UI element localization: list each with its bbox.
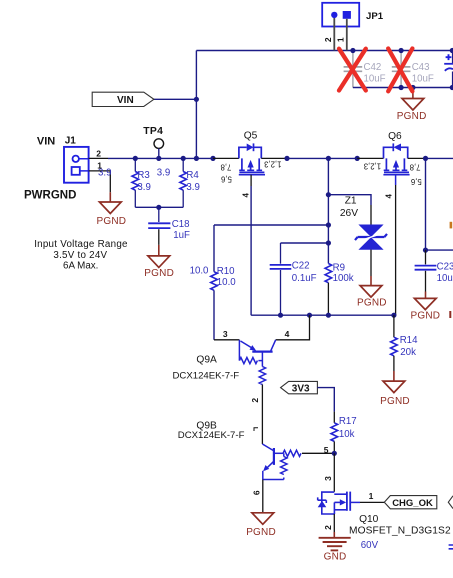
- pin number 1 Q10: [369, 491, 374, 501]
- wire R3 R4 bottom rail: [135, 206, 183, 208]
- node C22 branch: [326, 240, 331, 245]
- svg-text:Q6: Q6: [388, 131, 402, 142]
- svg-text:10k: 10k: [339, 429, 355, 440]
- svg-text:PGND: PGND: [144, 268, 174, 279]
- wire JP1 pin2: [333, 18, 335, 51]
- svg-text:CHG_OK: CHG_OK: [392, 498, 433, 509]
- wire bottom bus of caps: [353, 87, 453, 89]
- svg-text:3.9: 3.9: [157, 168, 170, 179]
- value 10.0 stray (R10): [190, 266, 209, 277]
- svg-text:3.9: 3.9: [137, 182, 150, 193]
- resistor R17: [331, 412, 357, 454]
- svg-text:PGND: PGND: [246, 527, 276, 538]
- svg-text:R3: R3: [137, 170, 149, 181]
- pin number 3 Q9A: [223, 329, 228, 339]
- resistor R3: [132, 158, 151, 207]
- wire bus to Q6 left: [357, 157, 383, 159]
- node R10 branch: [326, 222, 331, 227]
- svg-text:J1: J1: [65, 135, 77, 146]
- ground PGND C23: [411, 292, 441, 322]
- svg-text:26V: 26V: [340, 208, 358, 219]
- wire J1 pin2 to bus: [89, 157, 108, 159]
- svg-text:6: 6: [252, 490, 262, 495]
- wire top bus: [196, 50, 453, 52]
- ground PGND top caps: [397, 88, 427, 123]
- svg-text:GND: GND: [324, 552, 347, 563]
- node right cap top: [450, 48, 453, 53]
- text clipped PGND right edge: [449, 311, 451, 318]
- transistor Q5 (P-MOSFET with body diode): [239, 131, 265, 175]
- svg-text:3.9: 3.9: [98, 168, 111, 179]
- capacitor C23: [415, 158, 453, 291]
- svg-text:Q9A: Q9A: [196, 354, 217, 365]
- pin label 7,8 Q6: [410, 163, 421, 172]
- node 5 junction: [332, 451, 337, 456]
- svg-text:3.5V to 24V: 3.5V to 24V: [53, 250, 107, 261]
- svg-text:1: 1: [335, 37, 345, 42]
- node Q5 left pin: [210, 156, 215, 161]
- pin label 5,6 Q5: [221, 175, 232, 184]
- svg-text:Q5: Q5: [244, 131, 258, 142]
- pin label 5,6 Q6: [411, 177, 422, 186]
- wire R10 top vertical: [213, 225, 215, 272]
- node R14 top: [391, 313, 396, 318]
- svg-text:PWRGND: PWRGND: [24, 190, 76, 202]
- svg-text:3: 3: [323, 476, 333, 481]
- svg-text:C18: C18: [172, 219, 190, 230]
- wire Q9A to Q9B: [261, 385, 263, 445]
- transistor Q6 (P-MOSFET with body diode): [383, 131, 409, 175]
- ground PGND J1: [97, 192, 127, 227]
- resistor R10: [211, 266, 237, 290]
- capacitor right edge (clipped, polarized): [444, 51, 453, 88]
- wire bus right edge: [426, 157, 453, 159]
- svg-text:JP1: JP1: [366, 11, 384, 22]
- pin number 2 JP1: [323, 37, 333, 42]
- svg-text:Q10: Q10: [359, 514, 379, 525]
- node C43 bottom: [399, 85, 404, 90]
- pin number 1 JP1: [335, 37, 345, 42]
- svg-text:C43: C43: [412, 62, 430, 73]
- svg-text:VIN: VIN: [37, 135, 55, 147]
- wire Q9A pin3: [214, 339, 239, 341]
- svg-text:1,2,3: 1,2,3: [364, 161, 381, 170]
- capacitor C42 (DNP): [344, 51, 386, 88]
- svg-text:3V3: 3V3: [292, 383, 310, 394]
- svg-text:1,2,3: 1,2,3: [264, 159, 281, 168]
- node C43 top: [399, 48, 404, 53]
- node Q9A pin4: [307, 313, 312, 318]
- net label 3V3: [281, 381, 318, 394]
- svg-text:C42: C42: [364, 62, 382, 73]
- transistor Q10 (N-MOSFET with body diode): [318, 492, 451, 551]
- wire bottom rail: [251, 314, 394, 316]
- net label VIN: [92, 92, 154, 106]
- svg-text:10.0: 10.0: [190, 266, 209, 277]
- node C23 branch: [423, 156, 428, 161]
- pin label 1,2,3 Q5: [264, 159, 281, 168]
- wire Q10 pin2: [333, 514, 335, 532]
- diode Z1 (TVS bidirectional): [340, 196, 387, 276]
- pin number 4 Q9A: [285, 329, 290, 339]
- pin number 2 Q10: [323, 525, 333, 530]
- pin number 3 Q10: [323, 476, 333, 481]
- svg-text:R17: R17: [339, 416, 357, 427]
- svg-text:C22: C22: [292, 261, 310, 272]
- node Q6 left: [355, 156, 360, 161]
- svg-text:7,8: 7,8: [221, 163, 232, 172]
- note input voltage range: [34, 239, 128, 271]
- svg-text:4: 4: [285, 329, 290, 339]
- svg-text:10.0: 10.0: [217, 277, 236, 288]
- svg-text:3: 3: [223, 329, 228, 339]
- wire gate network vertical: [327, 158, 329, 263]
- node R3 top: [133, 156, 138, 161]
- svg-text:C23: C23: [437, 261, 453, 272]
- wire Q9A pin4: [276, 315, 310, 340]
- pin number 4 Q6: [385, 193, 394, 198]
- ground PGND Q9B: [246, 513, 276, 538]
- value 3.9 (R3): [157, 168, 170, 179]
- wire Q5 pin4 stem: [250, 175, 252, 316]
- svg-text:PGND: PGND: [357, 297, 387, 308]
- wire 3V3 to R17: [317, 388, 334, 412]
- resistor R9: [325, 263, 354, 316]
- wire VIN vertical: [195, 51, 197, 159]
- pin label 7,8 Q5: [221, 163, 232, 172]
- node right cap bottom: [450, 85, 453, 90]
- DNP mark X over C43: [388, 49, 412, 92]
- ground PGND C18: [144, 245, 174, 279]
- svg-text:5: 5: [324, 445, 329, 455]
- capacitor C22: [270, 243, 317, 315]
- wire Q10 pin1: [360, 501, 384, 503]
- capacitor clipped right edge bottom: [449, 545, 453, 549]
- net label clipped right edge: [448, 496, 453, 509]
- svg-text:DCX124EK-7-F: DCX124EK-7-F: [178, 430, 245, 441]
- value 3.9 stray (J1 area): [98, 168, 111, 179]
- wire bus Q5 to Q6: [287, 157, 357, 159]
- wire Z1 horizontal: [328, 195, 371, 205]
- wire R10 horizontal: [214, 224, 328, 226]
- wire node5 to Q10 gate: [333, 453, 335, 492]
- pin number 2 Q9A: [250, 398, 260, 403]
- node C18 top: [156, 205, 161, 210]
- svg-text:R14: R14: [400, 335, 418, 346]
- svg-text:R4: R4: [186, 170, 199, 181]
- DNP mark X over C42: [339, 49, 366, 91]
- svg-text:7,8: 7,8: [410, 163, 421, 172]
- svg-text:PGND: PGND: [380, 396, 410, 407]
- wire JP1 pin1: [346, 19, 348, 51]
- connector J1: [24, 135, 89, 201]
- resistor R14: [391, 315, 418, 371]
- wire bus to Q5 left: [213, 157, 239, 159]
- wire main bus left: [108, 157, 213, 159]
- svg-text:100k: 100k: [333, 273, 354, 284]
- capacitor C18: [148, 207, 190, 245]
- wire VIN label stub: [154, 98, 197, 100]
- svg-text:PGND: PGND: [397, 111, 427, 122]
- svg-text:2: 2: [323, 525, 333, 530]
- svg-text:PGND: PGND: [97, 216, 127, 227]
- svg-text:60V: 60V: [361, 540, 379, 551]
- node VIN drop: [194, 156, 199, 161]
- svg-text:VIN: VIN: [117, 95, 134, 106]
- svg-text:Input Voltage Range: Input Voltage Range: [34, 239, 128, 250]
- svg-text:3.9: 3.9: [186, 182, 199, 193]
- svg-text:Z1: Z1: [345, 196, 357, 207]
- node C22 bottom: [278, 313, 283, 318]
- node gate network top: [326, 156, 331, 161]
- node VIN junction: [194, 97, 199, 102]
- svg-text:R9: R9: [333, 263, 345, 274]
- wire Q9B emitter down: [262, 480, 264, 513]
- wire Q9B base to node 5: [302, 452, 334, 454]
- resistor R4: [180, 158, 200, 207]
- svg-text:1: 1: [369, 491, 374, 501]
- connector JP1: [322, 3, 384, 27]
- wire Q6 pin4 stem: [395, 175, 397, 316]
- svg-text:1uF: 1uF: [173, 230, 190, 241]
- svg-text:4: 4: [241, 193, 250, 198]
- svg-text:2: 2: [323, 37, 333, 42]
- ground PGND Z1: [357, 276, 387, 308]
- node R4 top: [181, 156, 186, 161]
- wire Q6 right pin: [408, 157, 426, 159]
- ground PGND R14: [380, 371, 410, 407]
- svg-text:2: 2: [96, 148, 101, 158]
- node R9 bottom: [326, 313, 331, 318]
- transistor Q9B (DCX124EK digital): [178, 421, 301, 480]
- svg-text:20k: 20k: [400, 347, 416, 358]
- pin number 2 J1: [96, 148, 101, 158]
- wire C22 top horizontal: [281, 242, 329, 244]
- capacitor C43 (DNP): [392, 51, 434, 88]
- svg-text:TP4: TP4: [143, 126, 163, 137]
- node TP4: [156, 156, 161, 161]
- pin number 6 Q9B: [252, 490, 262, 495]
- svg-text:R10: R10: [217, 266, 235, 277]
- wire R10 bottom to Q9A pin3: [213, 290, 215, 340]
- svg-text:10uF: 10uF: [364, 73, 386, 84]
- svg-text:DCX124EK-7-F: DCX124EK-7-F: [173, 370, 240, 381]
- node C42 top: [350, 48, 355, 53]
- svg-text:PGND: PGND: [411, 311, 441, 322]
- svg-text:10uF: 10uF: [412, 73, 434, 84]
- net label CHG_OK: [384, 496, 437, 509]
- svg-text:MOSFET_N_D3G1S2: MOSFET_N_D3G1S2: [349, 526, 451, 537]
- transistor Q9A (DCX124EK digital): [173, 340, 276, 385]
- pin number 5 Q9B: [324, 445, 329, 455]
- node PGND stem: [410, 85, 415, 90]
- net label clipped orange right edge: [450, 222, 453, 229]
- pin label 1,2,3 Q6: [364, 161, 381, 170]
- node Q5 right: [284, 156, 289, 161]
- pin number 1 J1: [97, 161, 102, 171]
- svg-text:2: 2: [250, 398, 260, 403]
- svg-text:4: 4: [385, 193, 394, 198]
- svg-text:5,6: 5,6: [221, 175, 232, 184]
- pin number 4 Q5: [241, 193, 250, 198]
- test point TP4: [143, 126, 163, 158]
- node Z1 branch: [326, 192, 331, 197]
- svg-text:5,6: 5,6: [411, 177, 422, 186]
- svg-text:6A Max.: 6A Max.: [63, 260, 98, 271]
- svg-text:10uF: 10uF: [437, 273, 453, 284]
- wire Q5 right pin: [261, 157, 287, 159]
- ground GND Q10: [319, 532, 351, 563]
- wire J1 pin1: [89, 171, 111, 192]
- svg-text:0.1uF: 0.1uF: [292, 273, 317, 284]
